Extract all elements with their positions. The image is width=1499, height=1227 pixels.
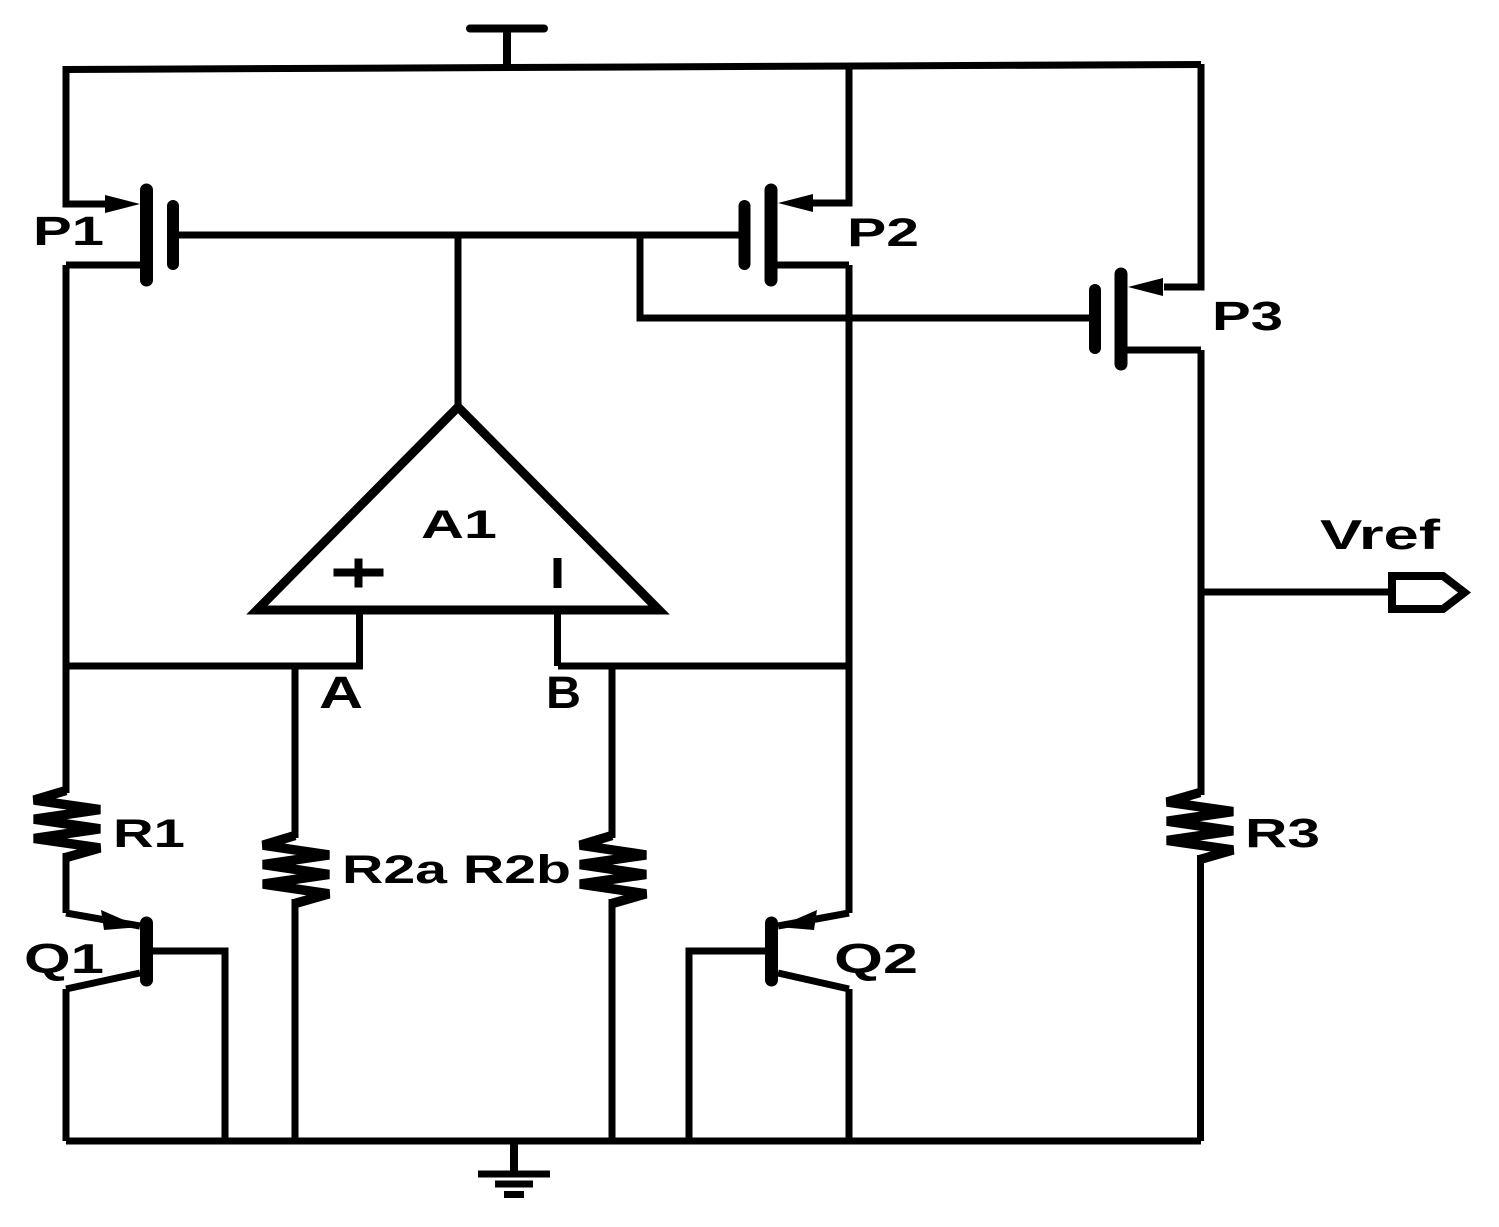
wire R2a to ground rail [292, 899, 299, 1141]
PMOS P1 [66, 190, 173, 280]
wire P3 source drop from rail [1164, 64, 1201, 287]
PMOS P2 [745, 190, 850, 280]
wire R1 to Q1 emitter [63, 853, 70, 913]
wire P2 source drop from rail [812, 66, 849, 203]
wire P1 drain down to R1 [63, 265, 70, 793]
wire P2 drain down to Q2 [846, 265, 853, 913]
svg-text:P3: P3 [1212, 293, 1283, 339]
resistor R2b [580, 836, 646, 904]
svg-text:R3: R3 [1245, 810, 1320, 856]
wire P1 source drop from rail [66, 68, 110, 204]
svg-text:B: B [546, 667, 581, 718]
power VDD symbol [470, 29, 544, 69]
node B [609, 666, 616, 838]
wire P3 drain down to R3 [1198, 350, 1205, 795]
wire op-amp plus input stub [356, 610, 363, 666]
svg-text:P1: P1 [33, 208, 104, 254]
port Vref [1392, 576, 1465, 609]
wire VDD top rail [63, 65, 1202, 70]
svg-text:A1: A1 [421, 503, 497, 547]
wire node B horizontal [558, 663, 849, 670]
resistor R3 [1167, 793, 1233, 860]
wire op-amp output to gate bus [455, 235, 462, 407]
svg-text:R2a R2b: R2a R2b [342, 848, 571, 892]
wire Vref output [1201, 589, 1392, 596]
op-amp A1 [257, 407, 659, 610]
wire gate bus P1-P2 [179, 232, 741, 239]
wire gate stub to P3 [640, 235, 1091, 318]
transistor Q1 [66, 910, 225, 1141]
svg-text:A: A [319, 667, 363, 718]
svg-text:Q2: Q2 [834, 935, 918, 982]
wire Q1 collector to ground rail [63, 989, 70, 1141]
node A [292, 666, 299, 838]
svg-text:P2: P2 [847, 211, 919, 255]
PMOS P3 [1095, 274, 1201, 364]
wire ground bottom rail [66, 1138, 1201, 1145]
svg-text:Vref: Vref [1320, 511, 1442, 558]
wire op-amp minus input stub [554, 610, 561, 666]
ground [478, 1141, 550, 1195]
transistor Q2 [689, 910, 849, 1141]
resistor R1 [34, 791, 100, 858]
resistor R2a [263, 836, 329, 904]
wire node A horizontal [66, 663, 363, 670]
svg-text:R1: R1 [113, 812, 185, 856]
svg-text:Q1: Q1 [24, 935, 104, 982]
wire Q2 collector to ground rail [846, 989, 853, 1141]
wire R3 to ground rail [1197, 855, 1204, 1141]
wire R2b to ground rail [609, 899, 616, 1141]
